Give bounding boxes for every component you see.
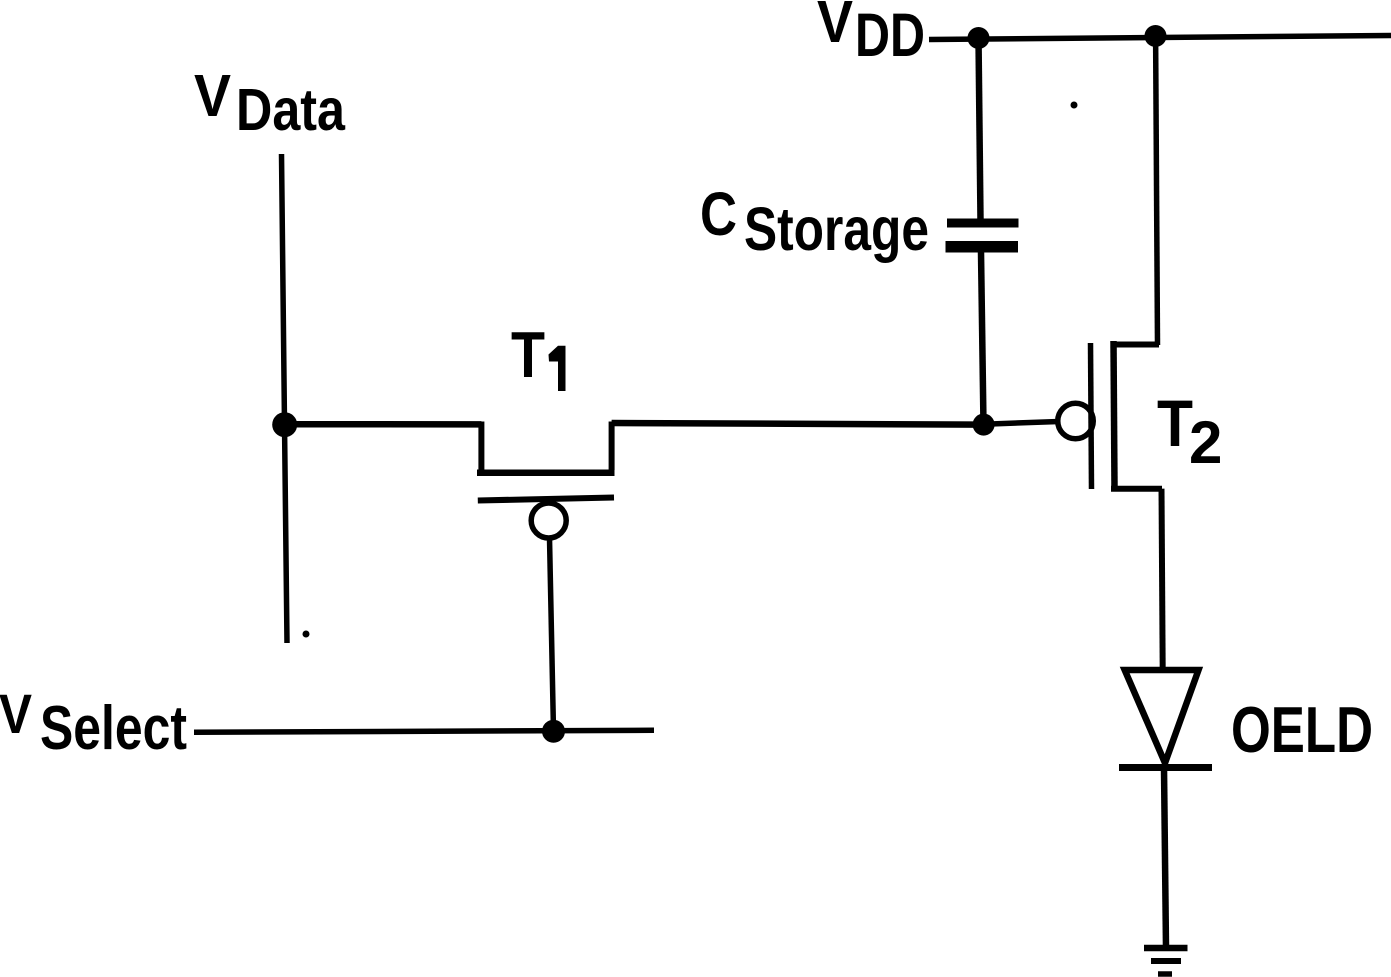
wire T1 source to storage node — [612, 423, 984, 425]
svg-text:V: V — [817, 0, 853, 55]
wire capacitor top lead — [979, 38, 981, 220]
junction VDD-T2 drain — [1145, 25, 1167, 47]
speck near VDD — [1071, 102, 1078, 109]
junction VSelect-T1 gate — [542, 720, 565, 743]
junction VData-T1 drain — [272, 412, 297, 437]
svg-text:T: T — [1157, 386, 1193, 460]
capacitor CStorage label — [700, 180, 929, 263]
transistor T2 label — [1157, 386, 1222, 476]
svg-text:Data: Data — [236, 77, 346, 143]
wire T2 source horizontal — [1111, 486, 1162, 492]
junction storage node — [973, 414, 995, 436]
svg-text:V: V — [194, 63, 231, 129]
svg-text:OELD: OELD — [1231, 693, 1373, 766]
transistor T2 gate bar — [1091, 343, 1092, 489]
svg-text:C: C — [700, 180, 737, 248]
wire VSelect line — [194, 730, 654, 732]
transistor T1 gate bubble — [531, 503, 566, 538]
svg-text:V: V — [0, 682, 32, 745]
transistor T1 label — [511, 318, 566, 391]
ground symbol — [1144, 948, 1188, 974]
svg-text:DD: DD — [855, 1, 925, 69]
node VDD label — [817, 0, 925, 69]
svg-text:Storage: Storage — [744, 195, 929, 263]
node VData label — [194, 63, 346, 143]
wire T1 gate to VSelect — [550, 538, 554, 731]
wire VData to T1 drain — [285, 421, 482, 428]
capacitor CStorage top plate — [947, 219, 1019, 228]
wire VDD top rail — [929, 36, 1391, 40]
svg-text:T: T — [511, 318, 545, 391]
diode OELD cathode bar — [1119, 764, 1212, 771]
wire T2 drain horizontal — [1111, 342, 1159, 348]
svg-text:Select: Select — [40, 694, 187, 763]
transistor T2 channel bar — [1114, 341, 1115, 488]
svg-text:2: 2 — [1189, 409, 1222, 476]
node VSelect label — [0, 682, 187, 763]
speck below VData line — [303, 631, 310, 638]
transistor T2 gate bubble — [1058, 403, 1094, 439]
junction VDD-capacitor — [968, 27, 990, 49]
wire storage node to T2 gate — [984, 422, 1059, 425]
capacitor CStorage bottom plate — [946, 241, 1019, 253]
diode OELD triangle — [1125, 670, 1199, 763]
transistor T1 channel — [477, 422, 615, 473]
transistor T1 gate bar — [478, 498, 614, 501]
wire T2 source to OELD — [1162, 489, 1163, 671]
wire T2 drain to VDD rail — [1156, 36, 1158, 345]
wire capacitor bottom lead — [981, 252, 984, 425]
wire VData vertical — [282, 154, 288, 643]
wire OELD cathode to ground — [1164, 768, 1166, 948]
